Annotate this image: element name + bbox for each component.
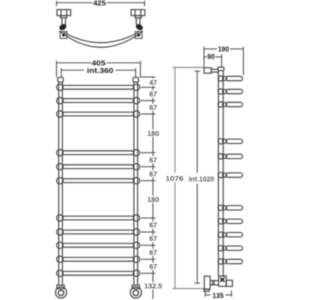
dimension 425 (top view overall width) xyxy=(57,1,145,6)
chain label 180 xyxy=(147,195,159,204)
front view right tube xyxy=(133,77,139,285)
front chain tick bar 3 xyxy=(141,113,156,115)
svg-text:425: 425 xyxy=(93,0,106,7)
front chain tick bar 1 xyxy=(141,86,156,88)
front chain tick bar 10 xyxy=(141,258,156,260)
label 405 xyxy=(92,59,106,68)
dimension 90 xyxy=(204,54,222,66)
top view left wall bracket xyxy=(57,10,71,25)
chain label 67 xyxy=(149,234,157,243)
svg-text:67: 67 xyxy=(149,103,157,112)
front chain top tick xyxy=(141,76,156,78)
side towel bar 2 xyxy=(218,89,242,94)
svg-text:1076: 1076 xyxy=(166,174,184,183)
front towel bar 7 xyxy=(57,215,140,221)
label 190 xyxy=(218,45,229,54)
dimension int.360 xyxy=(61,68,135,77)
front towel bar 4 xyxy=(57,150,140,156)
side towel bar 9 xyxy=(218,232,242,237)
chain label 67 xyxy=(149,90,157,99)
svg-text:67: 67 xyxy=(149,221,157,230)
front towel bar 3 xyxy=(57,111,140,117)
side view valve outlet xyxy=(226,280,232,286)
front view right foot valve xyxy=(130,285,141,298)
front towel bar 5 xyxy=(57,164,140,170)
svg-text:67: 67 xyxy=(149,155,157,164)
side towel bar 7 xyxy=(218,205,242,210)
svg-text:int.1020: int.1020 xyxy=(189,174,215,183)
front towel bar 9 xyxy=(57,242,140,248)
chain label 132.5 xyxy=(143,282,163,291)
front chain tick bar 5 xyxy=(141,166,156,168)
front chain tick bar 2 xyxy=(141,100,156,102)
side view bottom wall plate xyxy=(204,276,219,291)
front view left foot valve xyxy=(55,285,66,298)
dimension 135 xyxy=(205,291,231,297)
chain label 67 xyxy=(149,262,157,271)
front chain tick bar 11 xyxy=(141,272,156,274)
top view left elbow joint xyxy=(59,24,67,31)
front towel bar 8 xyxy=(57,229,140,235)
label 135 xyxy=(213,291,224,300)
side view top extension line xyxy=(172,66,203,68)
side view wall reference line xyxy=(174,67,176,288)
front towel bar 1 xyxy=(57,84,140,90)
svg-text:67: 67 xyxy=(149,234,157,243)
front chain tick bar 6 xyxy=(141,180,156,182)
label 1076 xyxy=(165,173,185,183)
front chain tick bar 9 xyxy=(141,244,156,246)
side towel bar 10 xyxy=(218,246,242,251)
side view top wall plate xyxy=(204,68,218,73)
chain label 67 xyxy=(149,103,157,112)
side view floor extension line xyxy=(172,288,206,290)
front chain tick bar 8 xyxy=(141,231,156,233)
label 425 xyxy=(93,0,106,7)
svg-text:190: 190 xyxy=(218,45,229,54)
svg-text:180: 180 xyxy=(147,195,159,204)
side towel bar 3 xyxy=(218,102,242,107)
front towel bar 2 xyxy=(57,97,140,103)
top view right wall bracket xyxy=(131,10,145,25)
top view right clamp square xyxy=(135,32,142,39)
svg-text:67: 67 xyxy=(149,90,157,99)
svg-text:90: 90 xyxy=(207,52,215,61)
side view tube xyxy=(218,67,224,277)
front towel bar 6 xyxy=(57,178,140,184)
dimension 190 xyxy=(204,47,243,75)
side view valve body xyxy=(219,276,227,286)
front chain dimension line xyxy=(152,77,154,299)
front chain tick bar 4 xyxy=(141,152,156,154)
top view right elbow joint xyxy=(135,24,143,31)
front towel bar 10 xyxy=(57,256,140,262)
svg-text:67: 67 xyxy=(149,248,157,257)
chain label 67 xyxy=(149,248,157,257)
front towel bar 11 xyxy=(57,270,140,276)
svg-text:int.360: int.360 xyxy=(87,66,114,75)
svg-text:135: 135 xyxy=(213,291,224,300)
front chain tick bar 7 xyxy=(141,217,156,219)
side towel bar 11 xyxy=(218,259,242,264)
side towel bar 8 xyxy=(218,219,242,224)
svg-text:180: 180 xyxy=(147,129,159,138)
side towel bar 5 xyxy=(218,154,242,159)
chain label 47 xyxy=(149,78,157,87)
front view left tube xyxy=(58,77,64,285)
label int.1020 xyxy=(188,173,215,183)
chain label 67 xyxy=(149,169,157,178)
label 90 xyxy=(207,52,215,61)
svg-text:47: 47 xyxy=(149,78,157,87)
side towel bar 4 xyxy=(218,139,242,144)
side towel bar 1 xyxy=(218,76,242,81)
chain label 67 xyxy=(149,221,157,230)
side towel bar 6 xyxy=(218,172,242,177)
label int.360 xyxy=(87,66,114,75)
top view left clamp square xyxy=(60,32,67,39)
side vertical dimension line 1076 / int.1020 xyxy=(194,71,200,283)
chain label 180 xyxy=(147,129,159,138)
dimension 405 (front view width) xyxy=(57,61,141,78)
svg-text:67: 67 xyxy=(149,262,157,271)
svg-text:132.5: 132.5 xyxy=(144,282,162,291)
chain label 67 xyxy=(149,155,157,164)
top view curved bar arc xyxy=(59,31,143,47)
svg-text:67: 67 xyxy=(149,169,157,178)
